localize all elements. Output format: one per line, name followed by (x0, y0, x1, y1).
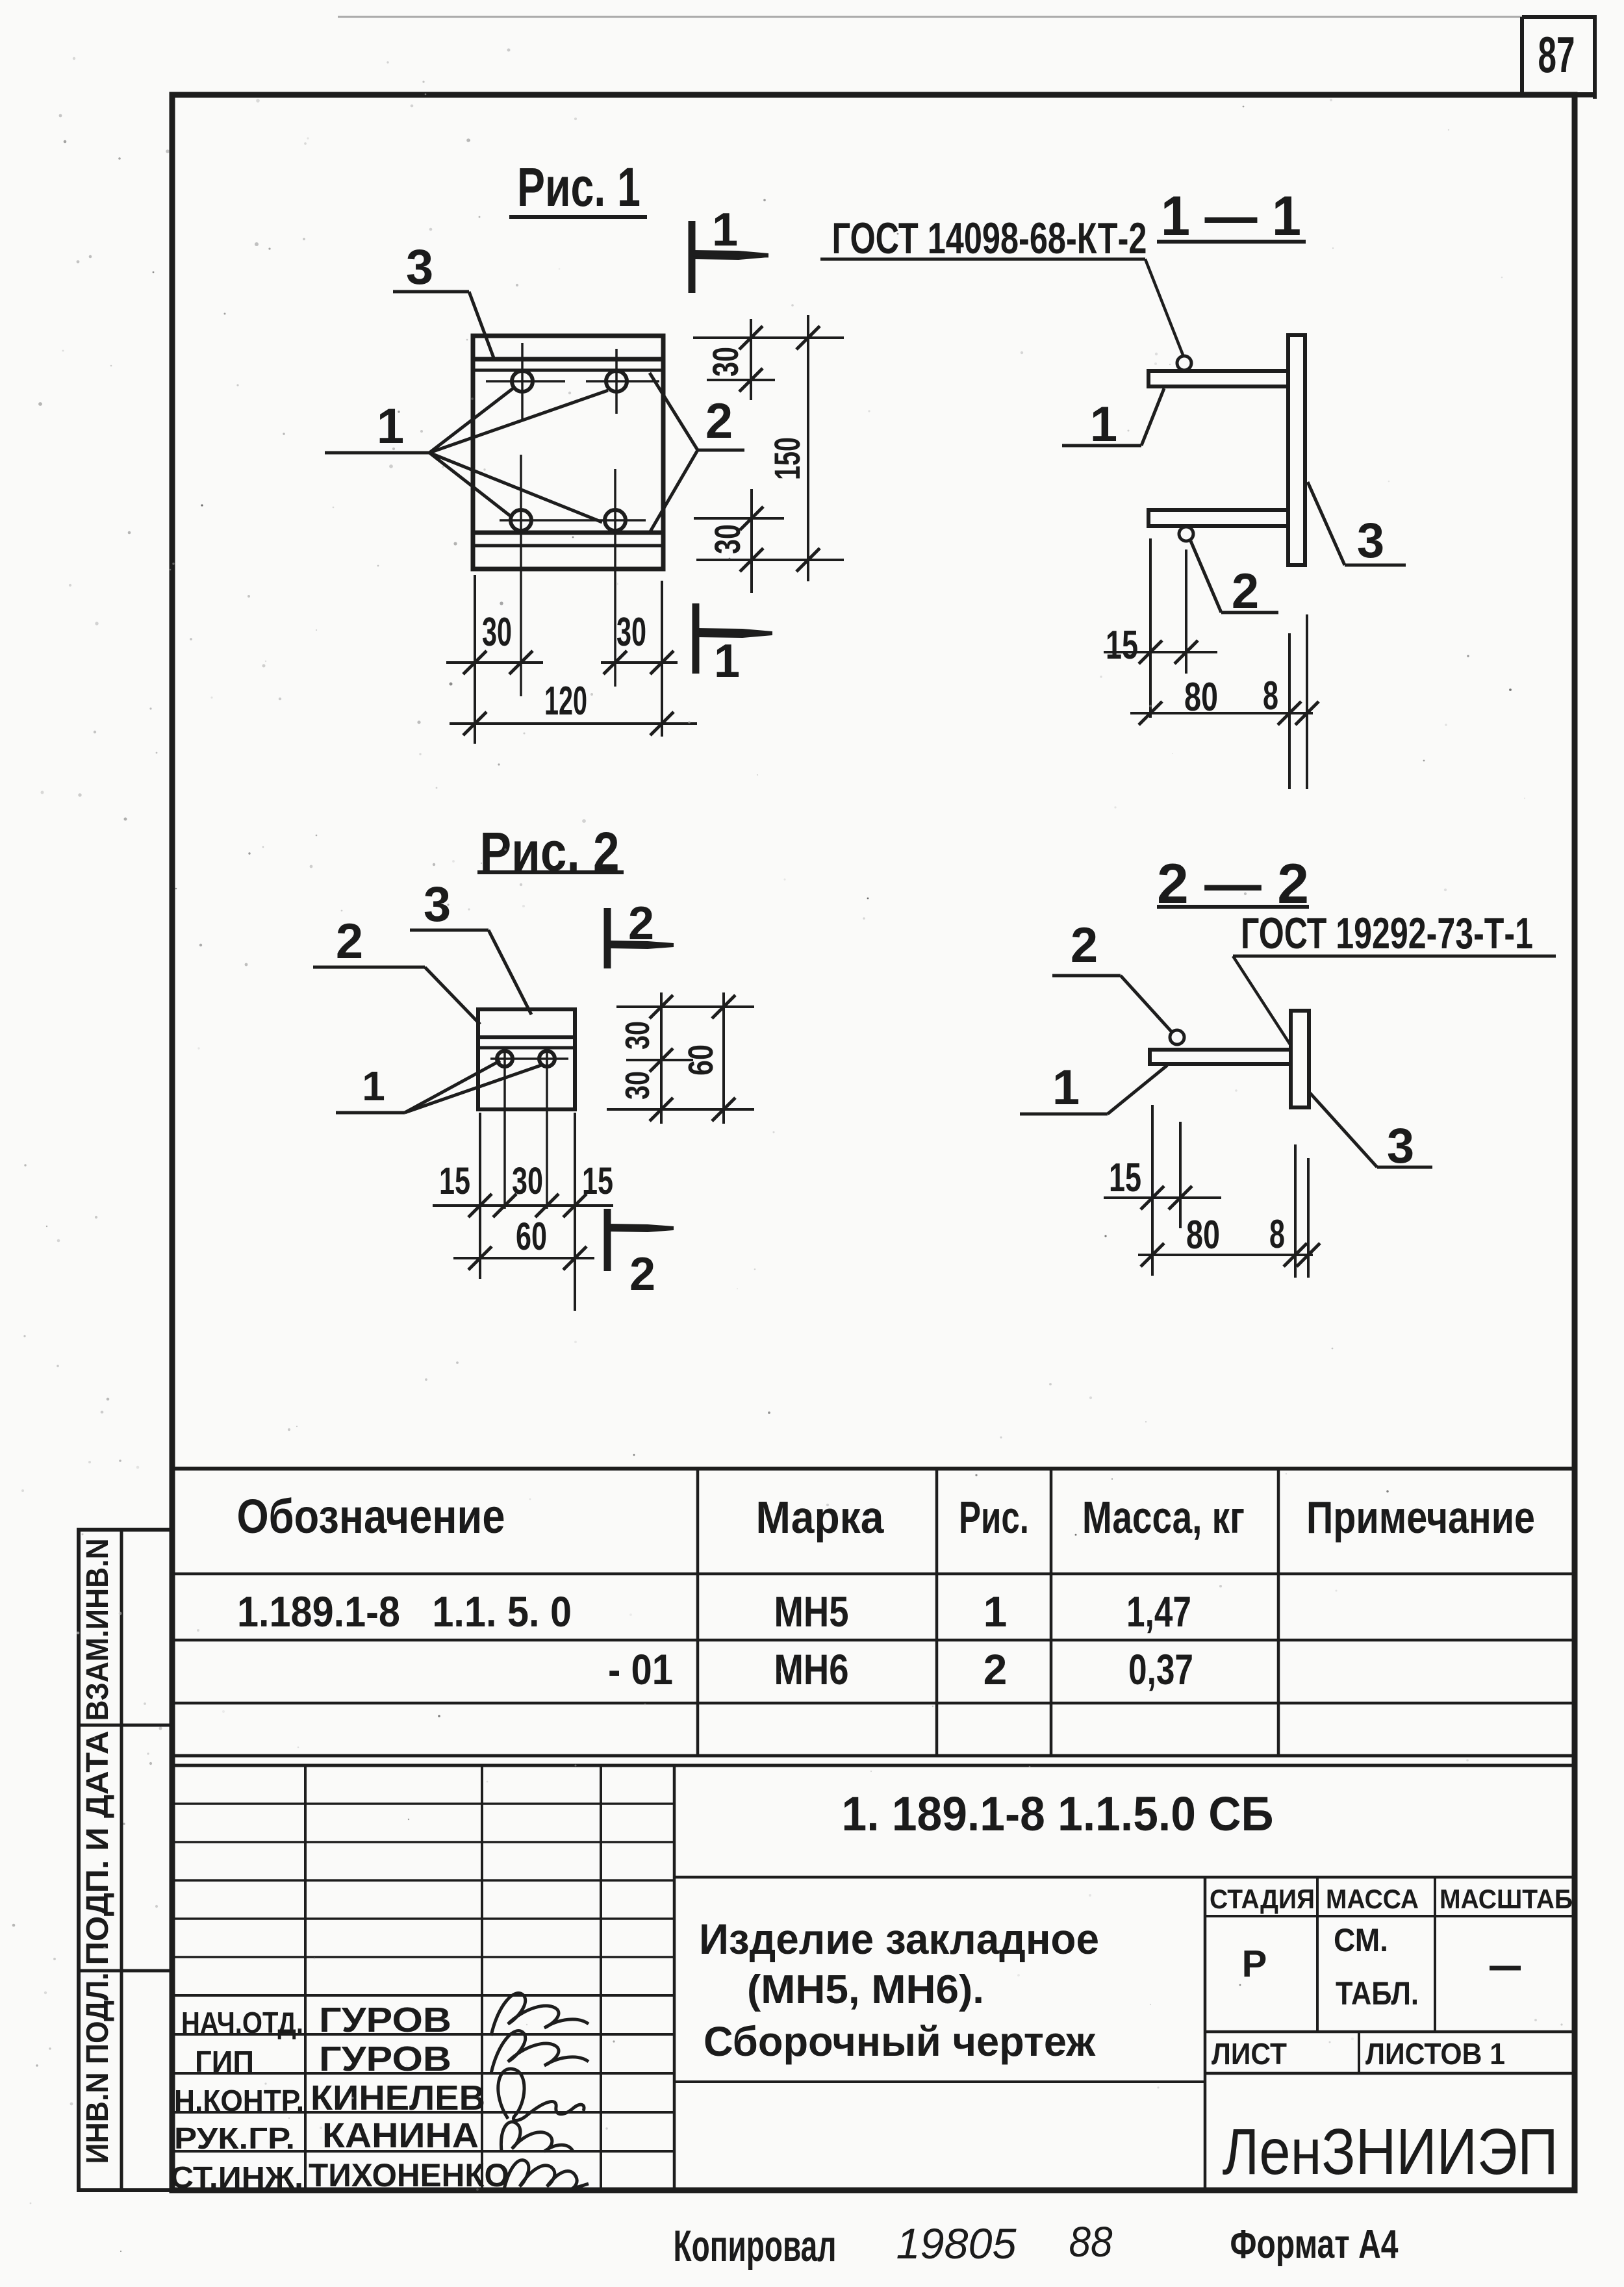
svg-text:2: 2 (983, 1645, 1008, 1693)
svg-text:30: 30 (482, 610, 512, 655)
svg-text:Р: Р (1242, 1943, 1267, 1985)
svg-text:Обозначение: Обозначение (237, 1489, 505, 1543)
svg-text:3: 3 (406, 240, 433, 295)
svg-text:30: 30 (616, 610, 646, 655)
svg-text:Рис.: Рис. (959, 1492, 1029, 1543)
svg-text:ПОДП. И ДАТА: ПОДП. И ДАТА (81, 1731, 115, 1965)
svg-text:Примечание: Примечание (1306, 1492, 1535, 1543)
svg-text:МН5: МН5 (774, 1587, 849, 1636)
svg-text:СТАДИЯ: СТАДИЯ (1210, 1884, 1315, 1914)
svg-text:ГИП: ГИП (195, 2045, 254, 2079)
svg-text:Формат А4: Формат А4 (1230, 2222, 1399, 2267)
svg-text:1: 1 (714, 635, 740, 687)
svg-text:ГУРОВ: ГУРОВ (319, 2001, 451, 2040)
svg-text:НАЧ.ОТД.: НАЧ.ОТД. (181, 2006, 303, 2040)
svg-text:1: 1 (712, 204, 738, 256)
svg-text:ЛенЗНИИЭП: ЛенЗНИИЭП (1223, 2116, 1558, 2188)
svg-text:2: 2 (1071, 918, 1098, 973)
svg-text:8: 8 (1269, 1212, 1285, 1257)
svg-text:150: 150 (767, 437, 807, 480)
svg-text:1: 1 (362, 1063, 385, 1109)
svg-text:2: 2 (1232, 564, 1259, 619)
svg-text:30: 30 (619, 1071, 657, 1100)
svg-text:60: 60 (681, 1044, 720, 1076)
svg-text:2 — 2: 2 — 2 (1157, 853, 1309, 915)
svg-text:ТАБЛ.: ТАБЛ. (1336, 1975, 1419, 2012)
svg-text:2: 2 (628, 898, 654, 950)
svg-text:Рис. 1: Рис. 1 (517, 157, 641, 218)
svg-text:8: 8 (1263, 674, 1278, 718)
svg-text:1. 189.1-8 1.1.5.0 СБ: 1. 189.1-8 1.1.5.0 СБ (842, 1787, 1274, 1841)
svg-text:15: 15 (1106, 623, 1138, 668)
svg-text:1: 1 (377, 399, 404, 454)
svg-text:МАСШТАБ: МАСШТАБ (1440, 1884, 1573, 1914)
svg-text:15: 15 (582, 1160, 613, 1202)
svg-text:30: 30 (707, 524, 748, 554)
svg-text:1: 1 (983, 1587, 1008, 1636)
svg-text:2: 2 (629, 1248, 655, 1300)
svg-text:1: 1 (1090, 397, 1117, 452)
svg-text:Масса, кг: Масса, кг (1082, 1492, 1245, 1543)
svg-text:ЛИСТОВ 1: ЛИСТОВ 1 (1365, 2037, 1505, 2071)
svg-text:МН6: МН6 (774, 1645, 849, 1693)
svg-text:2: 2 (336, 914, 363, 969)
svg-text:15: 15 (439, 1160, 470, 1202)
svg-text:ТИХОНЕНКО: ТИХОНЕНКО (309, 2157, 509, 2193)
svg-text:ГОСТ 14098-68-КТ-2: ГОСТ 14098-68-КТ-2 (832, 214, 1147, 263)
svg-text:СМ.: СМ. (1334, 1922, 1388, 1958)
svg-text:15: 15 (1109, 1156, 1141, 1200)
svg-text:ЛИСТ: ЛИСТ (1212, 2037, 1287, 2071)
svg-text:ГОСТ 19292-73-Т-1: ГОСТ 19292-73-Т-1 (1241, 909, 1533, 958)
svg-text:ГУРОВ: ГУРОВ (319, 2040, 451, 2079)
svg-text:1.189.1-8 1.1. 5. 0: 1.189.1-8 1.1. 5. 0 (237, 1587, 572, 1636)
svg-text:80: 80 (1184, 675, 1218, 720)
svg-text:МАССА: МАССА (1326, 1884, 1419, 1914)
svg-text:1 — 1: 1 — 1 (1161, 185, 1301, 247)
svg-text:- 01: - 01 (608, 1645, 673, 1693)
svg-text:ВЗАМ.ИНВ.N: ВЗАМ.ИНВ.N (81, 1539, 115, 1721)
svg-text:3: 3 (424, 877, 451, 932)
svg-text:ИНВ.N ПОДЛ.: ИНВ.N ПОДЛ. (81, 1973, 115, 2164)
svg-text:30: 30 (512, 1160, 543, 1202)
svg-text:Изделие закладное: Изделие закладное (699, 1915, 1099, 1963)
svg-text:РУК.ГР.: РУК.ГР. (174, 2121, 295, 2155)
svg-text:88: 88 (1069, 2218, 1113, 2266)
svg-text:1,47: 1,47 (1126, 1587, 1191, 1636)
svg-text:Копировал: Копировал (674, 2221, 837, 2271)
svg-text:30: 30 (619, 1021, 657, 1050)
svg-text:19805: 19805 (896, 2219, 1017, 2268)
svg-text:Марка: Марка (756, 1492, 885, 1543)
svg-text:3: 3 (1387, 1118, 1414, 1174)
svg-text:87: 87 (1538, 26, 1575, 83)
svg-text:80: 80 (1186, 1213, 1220, 1257)
svg-text:120: 120 (544, 679, 587, 724)
svg-text:3: 3 (1357, 513, 1384, 568)
svg-text:30: 30 (705, 347, 746, 377)
svg-text:КИНЕЛЕВ: КИНЕЛЕВ (311, 2079, 485, 2117)
svg-text:0,37: 0,37 (1128, 1645, 1193, 1693)
svg-text:1: 1 (1052, 1060, 1080, 1115)
svg-text:Сборочный чертеж: Сборочный чертеж (704, 2018, 1096, 2065)
svg-text:(МН5, МН6).: (МН5, МН6). (747, 1967, 984, 2012)
svg-text:Рис. 2: Рис. 2 (480, 821, 620, 882)
svg-text:60: 60 (516, 1215, 547, 1258)
svg-text:2: 2 (705, 394, 733, 449)
svg-text:КАНИНА: КАНИНА (322, 2116, 479, 2155)
svg-text:СТ.ИНЖ.: СТ.ИНЖ. (170, 2160, 303, 2194)
svg-text:Н.КОНТР.: Н.КОНТР. (174, 2084, 304, 2117)
